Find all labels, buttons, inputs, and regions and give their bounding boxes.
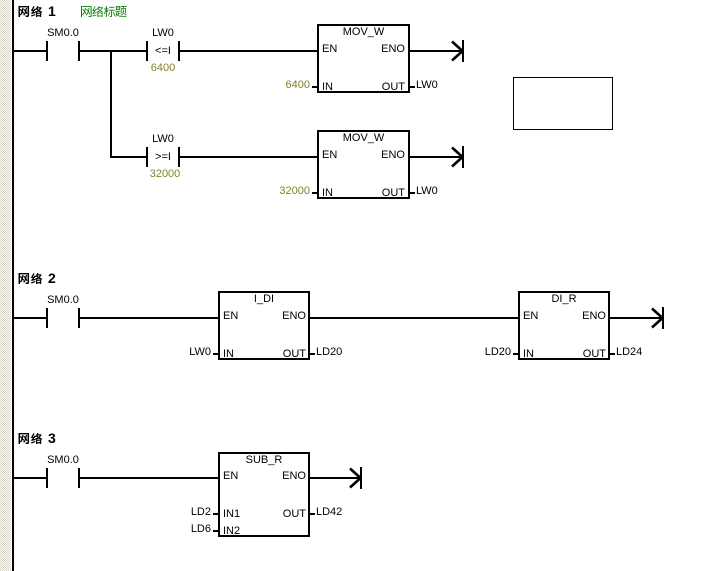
operand LD2 at IN1 (SUB_R)	[131, 507, 211, 518]
operand LD20 at IN (DI_R)	[431, 347, 511, 358]
operand LD20 at OUT (I_DI)	[316, 347, 342, 358]
tick IN (MOV_W rung 1)	[312, 86, 317, 88]
comparison contact <=I right bar (network 1 rung 1)	[178, 41, 180, 61]
pin EN (SUB_R)	[223, 471, 238, 482]
pin IN (MOV_W rung 2)	[322, 188, 333, 199]
function box DI_R U4 (network 2)	[518, 291, 610, 360]
pin EN (DI_R)	[523, 311, 538, 322]
rung output arrow (network 3)	[348, 467, 363, 489]
pin EN (MOV_W rung 1)	[322, 44, 337, 55]
tick OUT (DI_R)	[610, 353, 615, 355]
pin OUT (I_DI)	[226, 349, 306, 360]
network 2 heading number	[48, 271, 56, 285]
pin OUT (MOV_W rung 1)	[325, 82, 405, 93]
rung output arrow (network 1 rung 2)	[450, 146, 465, 168]
network 3 heading number	[48, 431, 56, 445]
pin ENO (SUB_R)	[226, 471, 306, 482]
pin ENO (I_DI)	[226, 311, 306, 322]
operand LW0 at OUT (MOV_W rung 2)	[416, 186, 438, 197]
tick IN (I_DI)	[213, 353, 218, 355]
function box I_DI U3 (network 2) title	[204, 294, 324, 305]
function box I_DI U3 (network 2)	[218, 291, 310, 360]
wire contact SM0.0 to SUB_R box (network 3)	[80, 477, 218, 479]
comparison contact >=I left bar (network 1 rung 2)	[146, 147, 148, 167]
label LW0 above comparison contact (rung 2)	[103, 134, 223, 145]
pin OUT (SUB_R)	[226, 509, 306, 520]
contact SM0.0 left bar (network 1)	[46, 41, 48, 61]
label SM0.0 (network 1)	[3, 28, 123, 39]
left gutter dithered strip	[0, 0, 11, 571]
pin OUT (DI_R)	[526, 349, 606, 360]
comparison operator <=I (rung 1)	[103, 46, 223, 57]
wire contact SM0.0 to I_DI box (network 2)	[80, 317, 218, 319]
pin IN (DI_R)	[523, 349, 534, 360]
rung output arrow (network 1 rung 1)	[450, 40, 465, 62]
network 1 title text 网络 1	[19, 6, 43, 17]
network 1 comment text 网络标题	[81, 6, 127, 17]
floating empty selection rectangle	[513, 77, 613, 130]
wire SUB_R ENO to arrow (network 3)	[310, 477, 360, 479]
tick IN1 (SUB_R)	[213, 513, 218, 515]
tick OUT (I_DI)	[310, 353, 315, 355]
constant 6400 below comparison contact (rung 1)	[103, 63, 223, 74]
operand 32000 at IN (MOV_W rung 2)	[230, 186, 310, 197]
comparison contact >=I right bar (network 1 rung 2)	[178, 147, 180, 167]
pin ENO (DI_R)	[526, 311, 606, 322]
wire MOV_W ENO to arrow (rung 1)	[410, 50, 462, 52]
network 1 heading number	[48, 4, 56, 18]
wire rail to contact SM0.0 (network 3)	[14, 477, 46, 479]
label SM0.0 (network 2)	[3, 295, 123, 306]
contact SM0.0 right bar (network 2)	[78, 308, 80, 328]
tick IN (MOV_W rung 2)	[312, 192, 317, 194]
tick IN (DI_R)	[513, 353, 518, 355]
pin IN1 (SUB_R)	[223, 509, 240, 520]
wire rail to contact SM0.0 (network 2)	[14, 317, 46, 319]
function box MOV_W U2 (network 1 rung 2)	[317, 130, 410, 199]
label SM0.0 (network 3)	[3, 455, 123, 466]
function box MOV_W U1 (network 1 rung 1)	[317, 24, 410, 93]
branch wire junction down to rung 2 (network 1)	[110, 50, 112, 158]
comparison operator >=I (rung 2)	[103, 152, 223, 163]
wire I_DI ENO to DI_R EN (network 2)	[310, 317, 518, 319]
contact SM0.0 left bar (network 2)	[46, 308, 48, 328]
rung output arrow (network 2)	[650, 307, 665, 329]
wire branch to comparison contact (network 1 rung 2)	[112, 156, 146, 158]
network 3 title text 网络 3	[19, 433, 43, 444]
pin ENO (MOV_W rung 1)	[325, 44, 405, 55]
function box SUB_R U5 (network 3)	[218, 452, 310, 537]
pin ENO (MOV_W rung 2)	[325, 150, 405, 161]
contact SM0.0 left bar (network 3)	[46, 468, 48, 488]
label LW0 above comparison contact (rung 1)	[103, 28, 223, 39]
operand LD24 at OUT (DI_R)	[616, 347, 642, 358]
wire DI_R ENO to arrow (network 2)	[610, 317, 662, 319]
operand LW0 at OUT (MOV_W rung 1)	[416, 80, 438, 91]
operand 6400 at IN (MOV_W rung 1)	[230, 80, 310, 91]
wire contact SM0.0 to comparison contact (network 1 rung 1)	[80, 50, 146, 52]
operand LW0 at IN (I_DI)	[131, 347, 211, 358]
pin EN (MOV_W rung 2)	[322, 150, 337, 161]
pin EN (I_DI)	[223, 311, 238, 322]
pin IN (I_DI)	[223, 349, 234, 360]
wire comparison contact to MOV_W box (rung 2)	[180, 156, 317, 158]
contact SM0.0 right bar (network 1)	[78, 41, 80, 61]
comparison contact <=I left bar (network 1 rung 1)	[146, 41, 148, 61]
wire rail to contact SM0.0 (network 1 rung 1)	[14, 50, 46, 52]
tick OUT (SUB_R)	[310, 513, 315, 515]
wire comparison contact to MOV_W box (rung 1)	[180, 50, 317, 52]
tick OUT (MOV_W rung 2)	[410, 192, 415, 194]
tick IN2 (SUB_R)	[213, 530, 218, 532]
constant 32000 below comparison contact (rung 2)	[105, 169, 225, 180]
operand LD6 at IN2 (SUB_R)	[131, 524, 211, 535]
pin IN (MOV_W rung 1)	[322, 82, 333, 93]
function box DI_R U4 (network 2) title	[504, 294, 624, 305]
function box MOV_W U1 (network 1 rung 1) title	[303, 27, 424, 38]
operand LD42 at OUT (SUB_R)	[316, 507, 342, 518]
function box SUB_R U5 (network 3) title	[204, 455, 324, 466]
wire MOV_W ENO to arrow (rung 2)	[410, 156, 462, 158]
function box MOV_W U2 (network 1 rung 2) title	[303, 133, 424, 144]
pin OUT (MOV_W rung 2)	[325, 188, 405, 199]
network 2 title text 网络 2	[19, 273, 43, 284]
pin IN2 (SUB_R)	[223, 526, 240, 537]
tick OUT (MOV_W rung 1)	[410, 86, 415, 88]
contact SM0.0 right bar (network 3)	[78, 468, 80, 488]
left power rail	[12, 0, 14, 571]
